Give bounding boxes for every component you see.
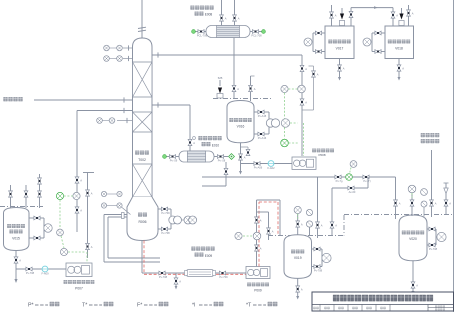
signal dash y123 — [290, 122, 298, 124]
valve below instrument — [75, 207, 79, 213]
svg-text:A: A — [80, 179, 82, 183]
V015 top stub 3 double valve — [39, 174, 41, 208]
pipe R006 right lower — [158, 228, 171, 230]
svg-text:A: A — [238, 17, 240, 21]
green diamond connector — [229, 154, 235, 160]
svg-text:A: A — [449, 202, 451, 206]
V015 top stub 1 — [10, 185, 12, 208]
heat exchanger E008 — [206, 26, 250, 38]
E010 left outlet — [166, 156, 179, 158]
label 甲醇中间罐 V020 — [402, 231, 424, 235]
stream arrow 52B from battery limit — [219, 80, 221, 86]
wire suction line to P007 — [16, 268, 66, 270]
valve on V016 feed — [232, 85, 236, 91]
svg-text:E008: E008 — [205, 13, 213, 17]
svg-text:Pv-708: Pv-708 — [314, 269, 323, 273]
svg-text:A: A — [179, 280, 181, 284]
pipe R006 right upper — [158, 208, 171, 210]
svg-text:A: A — [416, 284, 418, 288]
svg-text:Pv-7g: Pv-7g — [336, 179, 343, 183]
svg-text:A: A — [260, 219, 262, 223]
instrument circle reflux — [73, 192, 80, 199]
wire E008 inlet lines from top — [221, 0, 223, 26]
battery limit dash right segment — [344, 214, 453, 216]
column packing section 1 — [133, 62, 153, 97]
instrument circle header — [298, 85, 306, 93]
V019 top stub3 from transfer — [317, 177, 319, 238]
label 脱醛釜液冷凝器E009 — [191, 247, 214, 251]
svg-text:52B: 52B — [218, 76, 223, 80]
svg-text:E010: E010 — [212, 143, 220, 147]
svg-text:A: A — [402, 67, 404, 71]
battery limit dash left segment — [268, 235, 344, 237]
signal dash 284-301 y89 — [288, 88, 297, 90]
heat exchanger E010 — [179, 151, 214, 162]
wire bottoms line y273 — [142, 272, 246, 274]
svg-text:Pv-A15: Pv-A15 — [258, 114, 267, 118]
V019 top stub1 instrument — [297, 214, 299, 235]
valve E010 feed — [188, 139, 192, 145]
circulation circle V019 — [322, 253, 331, 262]
green terminator dot left — [192, 30, 196, 34]
V018 inlet arrow — [399, 14, 403, 20]
page border right — [453, 0, 455, 312]
drain branch — [175, 273, 177, 286]
wire connector — [170, 209, 172, 216]
instrument circle x284 y89 — [281, 85, 288, 92]
svg-text:Pv-.09: Pv-.09 — [170, 159, 178, 163]
signal dash vert to P008 — [303, 123, 305, 156]
wire reflux line to column — [77, 110, 133, 112]
V016 second top stub — [250, 76, 252, 101]
svg-text:A: A — [399, 202, 401, 206]
instrument circle x285 — [281, 119, 289, 127]
instrument circle green y143 — [281, 139, 289, 147]
instrument circle left of riser — [235, 232, 242, 239]
svg-text:A: A — [305, 101, 307, 105]
valve mid leg — [267, 228, 271, 234]
wire header drop to P008 line — [301, 55, 303, 156]
instrument TI pair lower — [117, 120, 133, 122]
svg-text:V019: V019 — [294, 256, 302, 260]
svg-text:A: A — [317, 73, 319, 77]
valve branch y188 — [348, 186, 354, 190]
battery limit dash line V016 — [213, 98, 272, 100]
svg-text:*T: *T — [246, 303, 252, 309]
svg-text:PCL-708: PCL-708 — [251, 34, 262, 38]
level gauge circle — [44, 224, 52, 232]
wire connector — [435, 229, 437, 245]
V018 level gauge — [372, 32, 385, 34]
svg-text:Pv-709: Pv-709 — [219, 275, 228, 279]
wire aux line x87 — [87, 173, 89, 259]
label 脱醛釜底泵 P009 — [247, 283, 269, 287]
E008 left outlet — [194, 31, 206, 33]
valve E008 top left — [220, 15, 224, 21]
svg-text:V018: V018 — [395, 47, 403, 51]
destination label 去反应甲醛配料罐 — [421, 133, 440, 137]
pump P009 — [246, 267, 270, 279]
svg-text:A: A — [305, 67, 307, 71]
V015 right nozzle lower — [29, 237, 44, 239]
wire E010 drop to transfer line — [225, 162, 227, 186]
valve riser lower — [255, 245, 259, 251]
valve header2 — [300, 99, 304, 105]
svg-text:Pv-708: Pv-708 — [159, 275, 168, 279]
label 去离子水进料泵 P007 — [64, 280, 95, 284]
column packing section 2 — [133, 112, 153, 132]
svg-text:A: A — [272, 230, 274, 234]
wire transfer line to V020 — [202, 176, 396, 178]
circulation pump circles — [169, 216, 182, 224]
leader line to reboiler — [122, 208, 131, 215]
vessel V019 — [284, 235, 312, 279]
V015 right nozzle upper — [29, 217, 44, 219]
signal dash y143 — [289, 142, 299, 144]
E010 right outlet — [214, 156, 228, 158]
V018 top stub1 — [392, 8, 394, 26]
label 精馏水封罐 V018 — [388, 40, 410, 44]
wire branch drop x332 — [331, 188, 333, 236]
title block — [312, 292, 454, 311]
valve aux upper — [86, 190, 90, 196]
signal dash to riser instrument — [243, 235, 252, 237]
instrument pair right — [182, 219, 185, 221]
V017 bottom outlet — [339, 59, 341, 78]
valve suction — [26, 267, 32, 271]
signal green dash vert — [59, 200, 61, 229]
signal dash vert x284 — [284, 93, 286, 119]
title 北京世纪森朗实验仪器有限公司 — [333, 295, 433, 302]
svg-text:T002: T002 — [138, 158, 146, 162]
V020 top stub2 instrument — [411, 193, 413, 216]
svg-text:A: A — [343, 67, 345, 71]
svg-text:V016: V016 — [237, 125, 245, 129]
reboiler label 塔釜 R006 — [138, 213, 147, 217]
valve header1 — [300, 65, 304, 71]
signal green dash horiz — [64, 195, 73, 197]
pipe loop vertical double — [103, 215, 105, 263]
svg-text:Pv-(T): Pv-(T) — [363, 179, 370, 183]
svg-text:Pv-709: Pv-709 — [161, 211, 170, 215]
instrument pair R006 upper — [101, 191, 106, 196]
wire V016 to P008 — [241, 163, 294, 165]
vessel V020 — [399, 215, 427, 261]
wire to batching tank — [431, 150, 433, 217]
V016 right nozzle lower — [254, 133, 269, 135]
svg-text:P009: P009 — [254, 289, 262, 293]
V019 right nozzle lower — [312, 266, 323, 268]
V017 inlet arrow — [340, 14, 344, 20]
wire reflux drop line — [76, 111, 78, 197]
heat exchanger E009 — [185, 270, 216, 277]
V020 bottom outlet — [412, 261, 414, 291]
gear pump circles — [266, 119, 279, 127]
svg-text:A: A — [19, 259, 21, 263]
pump P008 — [292, 157, 316, 169]
red dash bottoms line — [144, 273, 246, 275]
pump P007 — [66, 263, 92, 277]
instrument circle riser — [253, 232, 261, 240]
svg-text:A: A — [335, 224, 337, 228]
svg-text:A: A — [335, 14, 337, 18]
svg-text:Pv-708: Pv-708 — [429, 247, 438, 251]
wire connector — [321, 249, 323, 267]
green terminator dot right — [262, 30, 266, 34]
svg-text:PCL-709: PCL-709 — [197, 34, 208, 38]
svg-text:A: A — [237, 87, 239, 91]
sight glass — [42, 266, 48, 272]
pipe loop horizontal double — [104, 261, 160, 263]
svg-text:A: A — [244, 156, 246, 160]
V019 top stub2 instruments — [306, 209, 312, 227]
svg-text:V020: V020 — [409, 237, 417, 241]
valve E008 top right — [233, 15, 237, 21]
green dot E010 left — [163, 155, 167, 159]
circulation circle V020 — [437, 232, 446, 241]
label 脱醛塔釜出料冷凝器E010 — [198, 136, 221, 140]
sight glass on P008 suction — [268, 161, 274, 167]
node feed from dehydrogenation column — [3, 97, 22, 101]
svg-text:Pv-A06: Pv-A06 — [254, 166, 263, 170]
E008 right outlet — [250, 31, 262, 33]
V017 level gauge — [313, 32, 325, 34]
wire mid leg — [257, 211, 269, 213]
wire column sidedraw to E010 — [152, 104, 190, 106]
svg-text:Av-60: Av-60 — [349, 190, 356, 194]
vent loop right — [302, 109, 314, 111]
wire E008 bottom outlet to V016 — [233, 38, 235, 100]
red dash top header — [259, 201, 278, 203]
label 脱醛塔顶冷凝器E008 — [190, 6, 213, 10]
svg-text:V015: V015 — [12, 237, 20, 241]
svg-text:R006: R006 — [138, 220, 146, 224]
svg-text:A: A — [412, 12, 414, 16]
wire column overhead vapor line y55 — [152, 54, 302, 56]
V016 bottom outlet — [240, 143, 242, 171]
V016 bypass loop — [241, 146, 249, 148]
vessel V015 — [4, 208, 30, 251]
svg-text:A: A — [321, 224, 323, 228]
valve riser upper — [255, 217, 259, 223]
label 中间罐 V019 — [291, 250, 304, 254]
column packing section 3 — [133, 164, 153, 197]
valve aux lower — [86, 243, 90, 249]
svg-text:A: A — [91, 245, 93, 249]
instrument circle near pump — [60, 248, 67, 255]
battery limit dash line left — [0, 206, 43, 208]
vessel V017 — [325, 26, 354, 59]
svg-text:P*: P* — [28, 303, 34, 309]
V018 bottom outlet — [398, 59, 400, 78]
instrument circle green left — [56, 192, 63, 199]
wire P009 discharge riser — [256, 200, 258, 267]
valve on drop — [224, 168, 228, 174]
V015 level gauge loop — [43, 218, 45, 238]
V020 right nozzle lower — [427, 244, 436, 246]
wire transfer drop into V020 — [395, 177, 397, 219]
V018 top stub2 — [408, 5, 410, 26]
svg-text:A: A — [91, 192, 93, 196]
svg-text:A: A — [254, 87, 256, 91]
signal green dash to pump — [68, 251, 85, 253]
svg-text:V017: V017 — [336, 47, 344, 51]
valve transfer 1 — [335, 175, 341, 179]
valve on reflux line — [75, 177, 79, 183]
wire nozzle connector — [268, 112, 270, 134]
wire overhead header V017-V018 — [351, 7, 393, 9]
valve bottoms 2 — [219, 271, 225, 275]
pipe break symbol — [138, 27, 146, 28]
red dash R006 bottom — [143, 241, 145, 273]
V015 bottom outlet — [15, 251, 17, 280]
svg-text:A: A — [301, 288, 303, 292]
svg-text:E009: E009 — [205, 254, 213, 258]
wire stub y186 — [202, 185, 226, 187]
svg-text:A: A — [80, 209, 82, 213]
V020 top stub3 instruments — [421, 189, 428, 207]
svg-text:F*: F* — [137, 303, 142, 309]
svg-text:Pv-.08: Pv-.08 — [218, 159, 226, 163]
instrument TI pair upper — [123, 47, 133, 49]
V020 top stub5 relief — [445, 183, 447, 215]
signal dash vert x284 lower — [284, 127, 286, 138]
V017 top stub1 — [331, 5, 333, 26]
reboiler R006 vessel — [127, 197, 158, 241]
label 去离子水进料罐 V015 — [7, 224, 25, 228]
valve bottoms 1 — [159, 271, 165, 275]
pipe R006 left nozzle — [104, 214, 127, 216]
svg-text:A: A — [301, 223, 303, 227]
svg-text:F-A02: F-A02 — [267, 166, 275, 170]
column label 脱醛塔 T002 — [135, 151, 149, 155]
vessel V018 — [385, 26, 414, 59]
valve on P008 suction — [254, 162, 260, 166]
signal green dash down to LG — [61, 236, 64, 248]
vessel V016 — [227, 101, 254, 143]
svg-text:A: A — [193, 141, 195, 145]
V019 right nozzle upper — [312, 248, 323, 250]
svg-text:*I: *I — [192, 303, 196, 309]
svg-text:Pv-A16: Pv-A16 — [258, 136, 267, 140]
wire R006 bottom outlet — [141, 241, 143, 274]
instrument circle on transfer — [346, 174, 353, 181]
battery limit dash vertical — [343, 215, 345, 236]
svg-text:T*: T* — [82, 303, 87, 309]
V016 right nozzle upper — [254, 111, 269, 113]
V017 top stub2 to header — [350, 11, 352, 26]
svg-text:Pv-708: Pv-708 — [26, 271, 35, 275]
label 甲醇回收泵 P008 — [312, 149, 334, 153]
V020 right nozzle upper — [427, 228, 436, 230]
svg-text:A: A — [260, 247, 262, 251]
title block small cells — [313, 307, 318, 309]
wire discharge top header — [257, 199, 281, 201]
label 甲醇回收罐 V016 — [229, 118, 251, 122]
svg-text:A: A — [225, 17, 227, 21]
svg-text:F-A09: F-A09 — [41, 272, 49, 276]
V015 top stub 2 — [25, 185, 27, 208]
instrument pair R006 lower — [101, 203, 106, 208]
wire column overhead line — [141, 0, 143, 38]
svg-text:P007: P007 — [75, 287, 83, 291]
wire branch y188 — [332, 187, 368, 189]
svg-text:A: A — [435, 202, 437, 206]
V019 bottom outlet — [297, 278, 299, 296]
instrument TI pair upper2 — [123, 58, 133, 60]
column T002 shell — [133, 38, 153, 203]
instrument circle mid — [57, 229, 64, 236]
instrument circle above transfer — [350, 161, 357, 168]
label 精馏水封罐 V017 — [328, 40, 350, 44]
signal stem — [350, 168, 352, 174]
red dash riser — [258, 202, 260, 267]
svg-text:A: A — [396, 14, 398, 18]
svg-text:Pv-708: Pv-708 — [161, 231, 170, 235]
svg-text:P008: P008 — [318, 153, 325, 157]
valve transfer 2 — [363, 175, 369, 179]
